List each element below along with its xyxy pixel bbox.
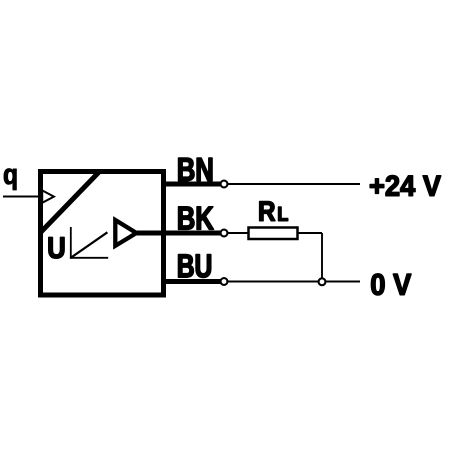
terminal BK xyxy=(221,230,228,237)
input arrowhead xyxy=(42,190,54,202)
wire BN stub xyxy=(161,182,222,187)
U characteristic axes: vertical axis xyxy=(70,227,72,259)
U characteristic ramp line xyxy=(71,232,107,257)
terminal BU xyxy=(221,278,228,285)
wire q input xyxy=(3,196,41,198)
terminal BN xyxy=(221,181,228,188)
label U xyxy=(49,237,64,258)
label 0 V xyxy=(371,274,411,295)
wire BU stub xyxy=(161,279,222,284)
label RL xyxy=(260,201,275,220)
wire vertical from resistor to 0V node xyxy=(321,233,323,282)
wire BK to resistor and node xyxy=(223,232,322,234)
label +24 V xyxy=(370,175,441,195)
label q xyxy=(4,169,16,190)
wire BK internal from triangle tip xyxy=(136,231,222,236)
U characteristic axes: horizontal axis xyxy=(70,257,108,259)
resistor RL xyxy=(249,228,298,240)
node junction 0V xyxy=(319,278,326,285)
label BU xyxy=(178,255,210,278)
op-amp buffer triangle xyxy=(115,220,136,246)
label BK xyxy=(179,207,214,230)
sensor box U1 xyxy=(41,172,164,296)
wire BN to +24V xyxy=(223,183,360,185)
label BN xyxy=(179,158,213,181)
diagonal separator line xyxy=(41,172,100,233)
wire BU to 0V xyxy=(223,281,360,283)
